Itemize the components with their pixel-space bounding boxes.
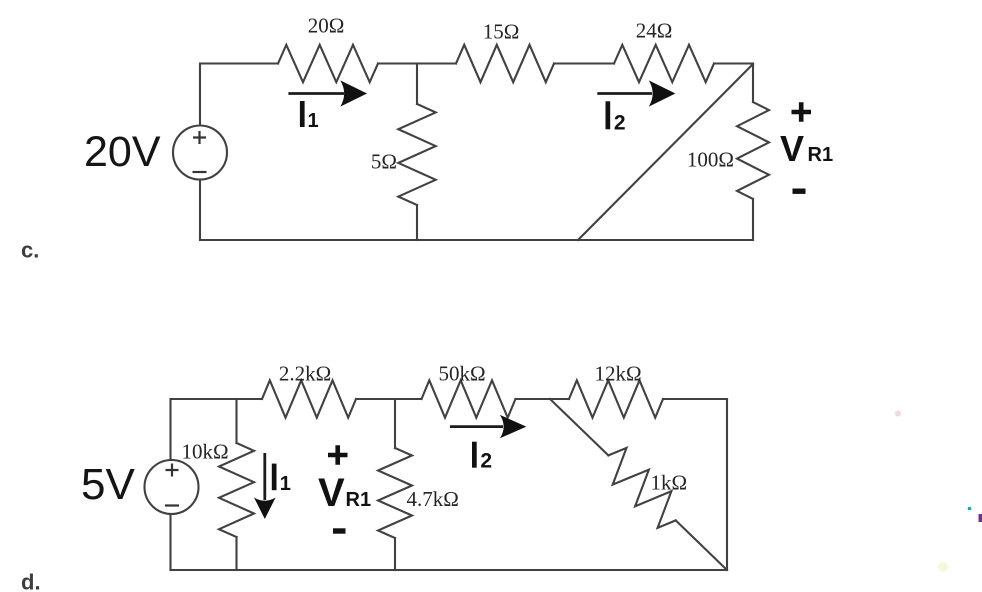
wire c right rail lower xyxy=(752,199,754,240)
wire d left rail lower xyxy=(169,514,171,570)
current arrow I1 (circuit d, downward) xyxy=(254,453,276,519)
svg-text:12kΩ: 12kΩ xyxy=(594,362,641,386)
wire d 4.7k branch upper xyxy=(394,399,396,448)
svg-text:R1: R1 xyxy=(808,144,834,166)
resistor R 50k xyxy=(422,380,516,417)
wire c bottom rail xyxy=(200,239,753,241)
resistor R 2.2k xyxy=(262,380,356,417)
svg-text:1: 1 xyxy=(308,110,319,132)
label I1 (circuit d) xyxy=(272,464,291,496)
source 5V plus sign xyxy=(166,464,179,477)
label VR1 (circuit d) xyxy=(318,471,371,515)
svg-text:4.7kΩ: 4.7kΩ xyxy=(407,487,459,511)
current arrow I1 (circuit c) xyxy=(288,80,367,106)
svg-text:R1: R1 xyxy=(346,489,372,511)
svg-text:V: V xyxy=(318,471,345,515)
svg-text:c.: c. xyxy=(21,238,39,263)
resistor R 24ohm xyxy=(614,45,714,82)
artifact yellow blob xyxy=(938,562,948,572)
wire c top node segment xyxy=(378,62,456,64)
wire d 10k branch upper xyxy=(235,399,237,443)
artifact purple blob xyxy=(979,514,982,522)
wire d 4.7k branch lower xyxy=(394,538,396,570)
svg-text:20V: 20V xyxy=(84,128,161,176)
wire c top-right segment xyxy=(714,62,753,64)
svg-text:50kΩ: 50kΩ xyxy=(438,362,485,386)
svg-text:d.: d. xyxy=(21,570,41,592)
wire c node A branch upper xyxy=(416,64,418,105)
artifact pink dot xyxy=(895,411,901,417)
voltage source V 20V xyxy=(173,126,227,180)
label VR1 plus (circuit d) xyxy=(328,445,348,465)
wire d top segment 3 xyxy=(516,398,570,400)
svg-text:24Ω: 24Ω xyxy=(636,19,673,43)
wire c node A branch lower xyxy=(416,205,418,240)
resistor R 4.7k xyxy=(378,448,412,538)
wire d diagonal lower xyxy=(676,520,727,570)
wire d top-left segment xyxy=(171,399,263,460)
label I1 (circuit c) xyxy=(300,101,319,132)
label VR1 minus (circuit c) xyxy=(793,189,806,194)
resistor R 20ohm xyxy=(278,45,378,82)
label VR1 (circuit c) xyxy=(780,128,833,169)
label VR1 minus (circuit d) xyxy=(333,528,346,533)
label I2 (circuit d) xyxy=(472,442,492,473)
wire c top mid segment xyxy=(554,62,614,64)
svg-text:100Ω: 100Ω xyxy=(687,148,734,172)
wire d top-right segment xyxy=(663,398,727,400)
svg-text:1kΩ: 1kΩ xyxy=(651,471,688,495)
source 20V minus sign xyxy=(193,171,207,173)
label I2 (circuit c) xyxy=(606,101,626,134)
current arrow I2 (circuit d) xyxy=(450,415,526,438)
wire d diagonal upper xyxy=(550,399,608,455)
source 5V minus sign xyxy=(165,504,179,506)
voltage source V 5V xyxy=(145,460,199,514)
artifact teal dot xyxy=(968,507,972,511)
wire c top-left segment xyxy=(200,64,278,126)
svg-text:5Ω: 5Ω xyxy=(371,150,397,174)
wire c right rail upper xyxy=(752,64,754,103)
resistor R 5ohm xyxy=(398,104,435,205)
wire d bottom rail xyxy=(171,569,728,571)
svg-text:5V: 5V xyxy=(81,460,135,509)
svg-text:V: V xyxy=(780,128,804,169)
svg-text:2: 2 xyxy=(480,450,492,473)
wire c left rail lower xyxy=(199,180,201,241)
wire d 10k branch lower xyxy=(235,537,237,570)
wire d top segment 2 xyxy=(356,398,422,400)
svg-text:2: 2 xyxy=(614,111,626,134)
source 20V plus sign xyxy=(193,131,206,144)
current arrow I2 (circuit c) xyxy=(597,80,675,106)
resistor R 10k xyxy=(219,443,254,537)
wire d right rail xyxy=(726,399,728,570)
svg-text:10kΩ: 10kΩ xyxy=(182,440,229,464)
label VR1 plus (circuit c) xyxy=(792,102,812,122)
resistor R 1k diagonal xyxy=(608,448,675,528)
svg-text:20Ω: 20Ω xyxy=(308,14,345,38)
svg-text:2.2kΩ: 2.2kΩ xyxy=(279,362,331,386)
wire c diagonal xyxy=(578,64,753,240)
resistor R 15ohm xyxy=(456,45,554,82)
resistor R 12k xyxy=(569,380,663,417)
svg-text:15Ω: 15Ω xyxy=(483,20,520,44)
svg-text:1: 1 xyxy=(280,473,291,495)
resistor R 100ohm xyxy=(737,102,769,199)
